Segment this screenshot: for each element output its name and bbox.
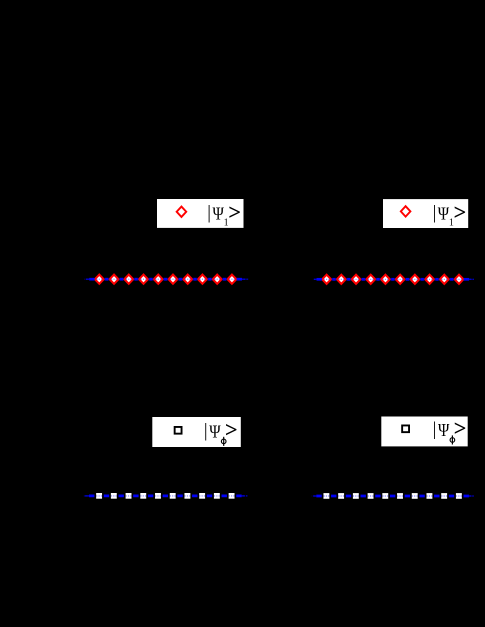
data series top-right: markers xyxy=(322,275,463,284)
legend box top-left xyxy=(157,199,244,228)
legend box bottom-left xyxy=(152,417,241,447)
legend box top-right xyxy=(383,199,468,228)
svg-text:Ψ: Ψ xyxy=(209,421,221,441)
svg-text:Ψ: Ψ xyxy=(438,420,450,440)
data series bottom-right: markers xyxy=(323,493,461,499)
svg-text:|: | xyxy=(433,420,437,440)
data series top-left: markers xyxy=(95,275,237,284)
svg-text:|: | xyxy=(433,204,437,224)
svg-text:>: > xyxy=(454,416,467,441)
data series top-right: blue dotted line segments xyxy=(312,278,474,280)
legend box bottom-right xyxy=(381,417,467,447)
data series top-right: blue dashed line xyxy=(317,278,322,281)
data series bottom-left: markers xyxy=(96,493,234,499)
data series top-right: line end segments xyxy=(469,279,471,280)
data series bottom-right: line start segment xyxy=(313,495,316,496)
data series bottom-right: blue dashed line xyxy=(312,495,474,498)
svg-text:>: > xyxy=(228,199,241,224)
data series top-left: blue dotted line segments xyxy=(84,278,248,280)
data series top-left: line start segment xyxy=(86,279,89,280)
data series bottom-left: blue dashed line xyxy=(83,495,247,498)
data series bottom-left: line start segment xyxy=(85,495,89,496)
svg-text:>: > xyxy=(454,200,467,225)
data series bottom-right: blue dotted line segments xyxy=(312,495,474,497)
legend marker red open diamond top-right xyxy=(401,206,411,216)
data series top-right: line start segment xyxy=(314,279,317,280)
legend marker black open square bottom-left xyxy=(175,427,182,434)
data series bottom-left: blue dotted line segments xyxy=(83,495,247,497)
data series bottom-right: line end segments xyxy=(469,495,471,496)
svg-text:>: > xyxy=(225,417,238,442)
data series top-left: line end segments xyxy=(242,279,246,280)
svg-text:|: | xyxy=(207,203,211,223)
legend marker black open square bottom-right xyxy=(402,425,409,432)
svg-text:|: | xyxy=(204,421,208,441)
data series top-left: blue dashed line xyxy=(89,278,94,281)
data series bottom-left: line end segments xyxy=(242,495,245,496)
legend marker red open diamond top-left xyxy=(177,207,187,217)
